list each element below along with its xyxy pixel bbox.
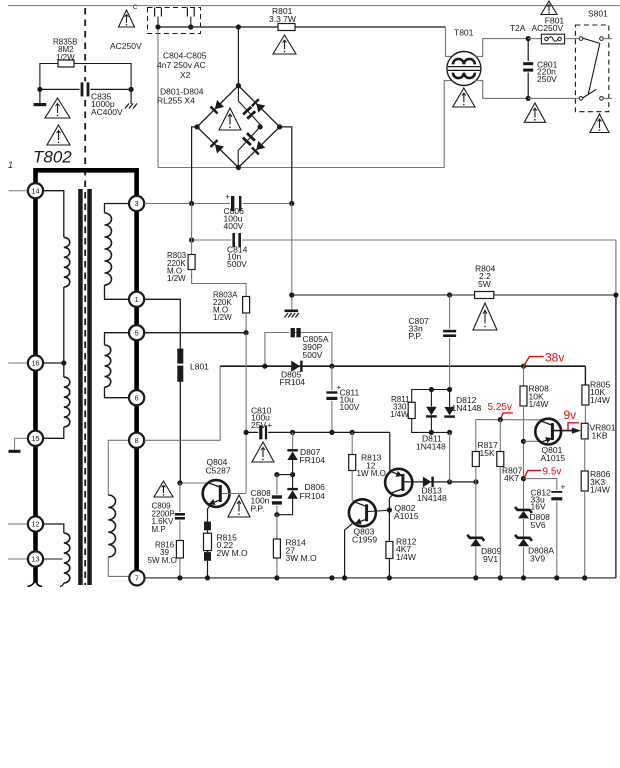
warning triangle below R801 bbox=[273, 35, 296, 54]
node rail R807 bbox=[498, 575, 503, 580]
svg-text:15: 15 bbox=[32, 434, 40, 443]
svg-text:1: 1 bbox=[135, 295, 139, 304]
svg-text:1N4148: 1N4148 bbox=[416, 441, 446, 451]
wire ground rail bbox=[145, 577, 617, 579]
wire C801 to S801 bottom bbox=[528, 97, 579, 99]
svg-text:3.3 7W: 3.3 7W bbox=[269, 14, 296, 24]
winding 5-6 bbox=[105, 333, 129, 345]
svg-text:1N4148: 1N4148 bbox=[417, 493, 447, 503]
warning triangle bridge bbox=[219, 108, 241, 130]
pin 12 bbox=[28, 516, 43, 531]
transistor Q803 bbox=[349, 499, 376, 526]
wire DC+ column bbox=[192, 127, 198, 204]
svg-text:C: C bbox=[133, 5, 138, 11]
diode D803 bbox=[210, 139, 224, 153]
warning triangle below C801 bbox=[524, 103, 545, 122]
svg-text:1/2W: 1/2W bbox=[56, 53, 75, 62]
capacitor C807 bbox=[442, 329, 457, 338]
node rail C809 bbox=[177, 575, 182, 580]
wire C810 row bbox=[246, 431, 390, 433]
svg-text:S801: S801 bbox=[588, 8, 608, 18]
wire T801 topright bbox=[475, 39, 528, 57]
wire Q804 collector bbox=[180, 482, 208, 484]
wire D812 column lower bbox=[449, 432, 451, 482]
warning triangle below T801 bbox=[453, 88, 475, 107]
zener D808 bbox=[515, 507, 532, 513]
node bridge bottom bbox=[236, 165, 241, 170]
wire R808 column bbox=[523, 366, 525, 386]
resistor R806 bbox=[581, 471, 588, 491]
wire D807-C808 link bbox=[277, 474, 293, 476]
warning triangle mains bbox=[119, 10, 135, 27]
svg-text:M.P: M.P bbox=[152, 525, 166, 534]
node rail R814 bbox=[274, 575, 279, 580]
node C807 top bbox=[447, 292, 452, 297]
T802 bus foot bbox=[28, 580, 36, 587]
winding 8-7 bbox=[108, 440, 129, 495]
pin 1 bbox=[129, 292, 144, 307]
switch S801 enclosure bbox=[575, 25, 608, 112]
svg-text:100V: 100V bbox=[340, 402, 360, 412]
svg-text:1N4148: 1N4148 bbox=[452, 403, 482, 413]
potentiometer VR801 bbox=[581, 423, 588, 439]
capacitor C814 bbox=[231, 232, 242, 248]
svg-text:16V: 16V bbox=[531, 502, 546, 512]
resistor R801 bbox=[278, 24, 295, 31]
capacitor C801 bbox=[522, 61, 534, 72]
svg-text:1KB: 1KB bbox=[592, 431, 608, 441]
node C801 top bbox=[526, 36, 531, 41]
ground earth right bbox=[130, 89, 132, 104]
node C835 right bbox=[129, 87, 134, 92]
wire pin16 link bbox=[42, 362, 64, 364]
node AC1-J1 bbox=[155, 24, 160, 29]
wire R803A bottom bbox=[245, 313, 247, 333]
pin 15 bbox=[28, 431, 43, 446]
svg-text:4n7 250v AC: 4n7 250v AC bbox=[157, 60, 206, 70]
wire pin13 stub bbox=[8, 558, 28, 560]
wire R804 row bbox=[292, 294, 616, 296]
diode D805 bbox=[291, 361, 300, 372]
capacitor C810 bbox=[258, 424, 268, 440]
pin 16 bbox=[28, 355, 43, 370]
wire R813 to Q803 bbox=[352, 471, 354, 503]
node C811 foot bbox=[329, 430, 334, 435]
warning triangle below C810 bbox=[252, 442, 274, 462]
svg-text:FR104: FR104 bbox=[300, 455, 326, 465]
wire AC2 drop bbox=[157, 27, 159, 168]
wire R803 column bbox=[191, 204, 193, 255]
svg-text:38v: 38v bbox=[545, 351, 564, 365]
wire R803-R803A elbow bbox=[192, 270, 247, 297]
wire pin8 to main bbox=[144, 366, 220, 440]
node D813 x476 bbox=[473, 479, 478, 484]
transistor Q802 bbox=[385, 469, 412, 496]
wire Q802 base row bbox=[405, 481, 477, 483]
wire AC1 top bbox=[158, 26, 278, 28]
zener D809 bbox=[467, 535, 484, 541]
node C814 left bbox=[189, 237, 194, 242]
wire Q803 emitter bbox=[345, 524, 353, 578]
svg-text:9v: 9v bbox=[564, 408, 577, 422]
svg-text:3W M.O: 3W M.O bbox=[286, 553, 318, 563]
node rail Q803e bbox=[342, 575, 347, 580]
capacitor C805 bbox=[238, 127, 260, 168]
diode D811 bbox=[430, 390, 432, 407]
node rail C812 bbox=[554, 575, 559, 580]
wire R813 column bbox=[351, 432, 353, 454]
svg-text:1/2W: 1/2W bbox=[213, 313, 232, 322]
wire 5v25 row bbox=[476, 419, 545, 421]
wire DC- column bbox=[280, 127, 292, 204]
node rail D808A bbox=[521, 575, 526, 580]
node C808 bottom bbox=[274, 512, 279, 517]
svg-text:500V: 500V bbox=[227, 259, 247, 269]
node C806 right bbox=[289, 201, 294, 206]
svg-text:25V: 25V bbox=[251, 420, 266, 430]
zener D808A bbox=[515, 535, 532, 541]
svg-text:13: 13 bbox=[32, 555, 40, 564]
wire pin12 stub bbox=[8, 523, 28, 525]
wire Q804 emitter bbox=[208, 506, 210, 521]
svg-text:FR104: FR104 bbox=[300, 491, 326, 501]
resistor R803 bbox=[188, 255, 195, 270]
wire D807 column bbox=[292, 432, 294, 449]
diode D804 bbox=[251, 141, 265, 155]
wire right edge column bbox=[615, 295, 617, 578]
capacitor C811 bbox=[325, 390, 338, 401]
svg-text:1/4W: 1/4W bbox=[396, 552, 416, 562]
svg-text:2W M.O: 2W M.O bbox=[217, 548, 249, 558]
transistor Q801 bbox=[535, 419, 561, 445]
resistor R815 fusible bbox=[204, 522, 211, 531]
node main R808 tap bbox=[521, 364, 526, 369]
node bridge right bbox=[277, 124, 282, 129]
wire AC2 bottom run bbox=[158, 81, 452, 168]
wire pin15 ground bbox=[15, 438, 28, 450]
resistor R808 bbox=[520, 386, 527, 406]
red 5.25v callout bbox=[501, 413, 513, 418]
svg-text:1/4W: 1/4W bbox=[590, 395, 610, 405]
svg-text:+: + bbox=[561, 483, 566, 492]
svg-text:T801: T801 bbox=[454, 27, 474, 37]
svg-text:AC250V: AC250V bbox=[532, 23, 564, 33]
pin 7 bbox=[129, 570, 144, 585]
diode D813 bbox=[423, 477, 432, 488]
wire pin13 link bbox=[42, 558, 63, 560]
svg-text:5V6: 5V6 bbox=[531, 520, 546, 530]
wire bridge top drop bbox=[237, 27, 239, 86]
svg-text:1/2W: 1/2W bbox=[167, 274, 186, 283]
wire R817 column bbox=[475, 420, 477, 452]
svg-text:5W: 5W bbox=[478, 279, 491, 289]
svg-text:5: 5 bbox=[135, 328, 139, 337]
dashed enclosure mains links bbox=[148, 8, 201, 34]
top border line bbox=[8, 5, 620, 7]
svg-text:1/4W: 1/4W bbox=[529, 399, 549, 409]
node R803A foot bbox=[244, 330, 249, 335]
wire L801 bottom bbox=[179, 382, 181, 483]
warning triangle below S801 bbox=[590, 114, 609, 133]
wire Q804 base bbox=[222, 493, 247, 495]
isolation dashed line bbox=[84, 8, 86, 585]
warning triangle above F801 bbox=[541, 1, 557, 15]
node C801 bottom bbox=[526, 96, 531, 101]
node AC1-J2 bbox=[188, 24, 193, 29]
transformer T801 bbox=[447, 52, 481, 86]
wire S801 out top bbox=[603, 38, 612, 40]
wire pin1 to L801 bbox=[144, 299, 180, 348]
red 38v callout bbox=[524, 357, 544, 367]
wire C801 to F801 bbox=[528, 38, 541, 40]
node DC- R804 row bbox=[289, 292, 294, 297]
node D811 bottom bbox=[429, 430, 434, 435]
svg-text:9V1: 9V1 bbox=[483, 554, 498, 564]
node w16 bbox=[61, 360, 66, 365]
svg-text:A1015: A1015 bbox=[541, 453, 566, 463]
switch S801 pole1 bbox=[579, 37, 583, 41]
capacitor C809 bbox=[174, 512, 186, 521]
node bridge left bbox=[195, 124, 200, 129]
svg-text:T802: T802 bbox=[33, 148, 72, 167]
wire block bottom bbox=[412, 419, 450, 433]
wire S801 out bottom bbox=[603, 97, 612, 99]
capacitor C804 bbox=[238, 86, 260, 125]
T802 bus top bar bbox=[36, 168, 137, 173]
red 9v callout bbox=[568, 423, 579, 430]
pin 14 bbox=[28, 183, 43, 198]
resistor R817 bbox=[472, 452, 479, 467]
wire Q801 base wiper bbox=[554, 430, 573, 432]
node main D805 right bbox=[329, 364, 334, 369]
wire R803A C810 column bbox=[245, 333, 247, 493]
node rail C811 bbox=[329, 575, 334, 580]
resistor R816 bbox=[176, 541, 183, 559]
node C810 left bbox=[244, 430, 249, 435]
winding 14-16 bbox=[42, 191, 64, 238]
node D811 top bbox=[429, 387, 434, 392]
red 9.5v callout bbox=[524, 471, 541, 478]
wire main rail bbox=[220, 365, 585, 367]
svg-text:AC400V: AC400V bbox=[91, 107, 123, 117]
wire C835 bbox=[40, 88, 131, 90]
wire R817 foot bbox=[475, 467, 477, 482]
winding 16-15 bbox=[64, 377, 70, 427]
node Q803 base bbox=[387, 507, 392, 512]
diode D807 bbox=[287, 452, 298, 461]
diode D801 bbox=[210, 100, 224, 114]
wire DC- lower bbox=[291, 204, 293, 310]
node C835 left bbox=[37, 87, 42, 92]
warning triangle right of Q804 bbox=[228, 495, 250, 517]
resistor R812 bbox=[386, 542, 393, 559]
node rail R815 bbox=[205, 575, 210, 580]
wire HV+ rail bbox=[144, 203, 291, 205]
svg-text:AC250V: AC250V bbox=[110, 41, 142, 51]
node D812 top bbox=[447, 387, 452, 392]
wire pin5 row bbox=[144, 332, 246, 334]
svg-text:14: 14 bbox=[32, 186, 40, 195]
wire C801 column bbox=[527, 39, 529, 99]
node Q801 emitter bbox=[521, 439, 526, 444]
capacitor C805A bypass bbox=[265, 333, 332, 367]
node bridge cap mid bbox=[258, 124, 263, 129]
wire 9v5 to C812 bbox=[524, 479, 557, 578]
capacitor C812 bbox=[550, 490, 563, 501]
diode D802 bbox=[251, 98, 265, 112]
winding 12-13 bbox=[42, 524, 64, 533]
svg-text:+: + bbox=[225, 193, 230, 202]
svg-text:5W M.O: 5W M.O bbox=[148, 556, 177, 565]
node rail D809 bbox=[473, 575, 478, 580]
svg-text:9.5v: 9.5v bbox=[543, 466, 562, 477]
svg-text:1: 1 bbox=[8, 160, 13, 170]
node rail R812 bbox=[387, 575, 392, 580]
transistor Q804 bbox=[203, 480, 230, 507]
pin 5 bbox=[129, 325, 144, 340]
wire Q801 emitter row bbox=[524, 440, 540, 442]
svg-text:FR104: FR104 bbox=[280, 377, 306, 387]
wire C814 down right bbox=[615, 240, 617, 295]
resistor R804 bbox=[475, 292, 494, 299]
capacitor C806 bbox=[230, 195, 242, 212]
capacitor C808 bbox=[276, 475, 278, 515]
svg-text:7: 7 bbox=[135, 574, 139, 583]
node C810 right bbox=[290, 430, 295, 435]
svg-text:500V: 500V bbox=[303, 350, 323, 360]
resistor R811 bbox=[408, 402, 415, 418]
node D807 anode bbox=[290, 472, 295, 477]
wire R807 column bbox=[499, 420, 501, 452]
ground DC- bbox=[285, 310, 299, 313]
wire VR801 to R806 bbox=[584, 439, 586, 471]
svg-text:16: 16 bbox=[32, 359, 40, 368]
pin 8 bbox=[129, 433, 144, 448]
wire D808A foot bbox=[523, 547, 525, 578]
wire R805 to VR801 bbox=[584, 405, 586, 423]
svg-text:8: 8 bbox=[135, 436, 139, 445]
switch S801 link bbox=[588, 43, 600, 94]
wire C811 column bbox=[331, 366, 333, 432]
node main D805 left bbox=[262, 364, 267, 369]
svg-text:15K: 15K bbox=[480, 448, 495, 458]
warning triangle left A bbox=[45, 98, 70, 118]
svg-text:T2A: T2A bbox=[510, 23, 526, 33]
capacitor C835 bbox=[80, 81, 91, 97]
wire AC1 after R801 bbox=[295, 26, 446, 28]
resistor R835B bbox=[58, 60, 74, 67]
wire D808-D808A bbox=[523, 519, 525, 538]
wire R807 foot bbox=[499, 467, 501, 578]
wire C809 column bbox=[179, 483, 181, 578]
node L801 foot bbox=[177, 480, 182, 485]
warning triangle left B bbox=[47, 125, 70, 145]
wire F801 to S801 bbox=[565, 38, 579, 40]
svg-text:P.P.: P.P. bbox=[251, 503, 265, 513]
svg-text:1/4W: 1/4W bbox=[590, 485, 610, 495]
wire D809 column bbox=[475, 482, 477, 578]
svg-text:3V9: 3V9 bbox=[530, 553, 545, 563]
warning triangle below R804 bbox=[473, 303, 497, 330]
svg-text:C5287: C5287 bbox=[206, 465, 231, 475]
resistor R805 bbox=[582, 385, 589, 405]
wire Q802 emitter up bbox=[390, 432, 392, 471]
node R813 top bbox=[350, 430, 355, 435]
pin 6 bbox=[129, 390, 144, 405]
switch S801 pole2 bbox=[579, 97, 583, 101]
node R804 right bbox=[613, 292, 618, 297]
warning triangle C809 bbox=[154, 481, 173, 497]
node D812 bottom bbox=[447, 430, 452, 435]
T802 core bbox=[78, 189, 83, 585]
inductor L801 bbox=[177, 349, 183, 364]
ground chassis left bbox=[39, 89, 41, 103]
svg-text:1W M.O: 1W M.O bbox=[357, 469, 386, 478]
resistor R814 bbox=[273, 539, 280, 558]
connector link J2 bbox=[186, 8, 188, 17]
wire pin14 stub bbox=[9, 190, 28, 192]
svg-text:A1015: A1015 bbox=[394, 511, 419, 521]
wire R812 foot bbox=[388, 559, 390, 578]
bridge edges bbox=[197, 86, 280, 168]
node C808 top bbox=[274, 472, 279, 477]
winding 3-1 bbox=[105, 204, 129, 214]
svg-text:400V: 400V bbox=[224, 221, 244, 231]
wire R808 foot bbox=[523, 406, 525, 510]
wire C807 column bbox=[449, 295, 451, 390]
diode D812 bbox=[449, 390, 451, 407]
node AC1 bridge tap bbox=[236, 24, 241, 29]
node 9v5 bbox=[521, 476, 526, 481]
svg-text:6: 6 bbox=[135, 393, 139, 402]
svg-text:12: 12 bbox=[32, 520, 40, 529]
svg-text:P.P.: P.P. bbox=[409, 331, 423, 341]
wire R806 foot bbox=[584, 491, 586, 578]
wire Q802 collector down bbox=[389, 495, 392, 542]
resistor R803A bbox=[243, 297, 250, 314]
T802 bus right bbox=[134, 168, 139, 572]
wire R835B top bbox=[40, 64, 131, 90]
diode D806 bbox=[292, 475, 294, 489]
node HV+ tap bbox=[189, 201, 194, 206]
svg-text:4K7: 4K7 bbox=[504, 473, 519, 483]
svg-text:C1959: C1959 bbox=[352, 534, 377, 544]
svg-text:1/4W: 1/4W bbox=[390, 410, 409, 419]
connector link J1 bbox=[154, 8, 156, 17]
svg-text:L801: L801 bbox=[190, 361, 209, 371]
fuse F801 bbox=[541, 34, 564, 44]
resistor R813 bbox=[349, 455, 356, 471]
wire R801 to T801 bbox=[446, 27, 453, 56]
wire 38v to R805 bbox=[584, 366, 586, 385]
svg-text:5.25v: 5.25v bbox=[488, 402, 512, 413]
wire T801 botright bbox=[475, 81, 528, 99]
node 5v25 bbox=[498, 417, 503, 422]
wire pin16 stub bbox=[8, 362, 28, 364]
node bridge top bbox=[236, 83, 241, 88]
wire Q803 base bbox=[368, 510, 390, 511]
node rail R806 bbox=[582, 575, 587, 580]
pin 13 bbox=[28, 551, 43, 566]
wire C814 row bbox=[192, 239, 616, 241]
svg-text:250V: 250V bbox=[537, 74, 557, 84]
svg-text:X2: X2 bbox=[180, 70, 191, 80]
T802 bus left bbox=[33, 168, 38, 583]
svg-text:RL255 X4: RL255 X4 bbox=[157, 96, 195, 106]
pin 3 bbox=[129, 196, 144, 211]
svg-text:C804-C805: C804-C805 bbox=[163, 51, 207, 61]
node D813 x449 bbox=[447, 479, 452, 484]
